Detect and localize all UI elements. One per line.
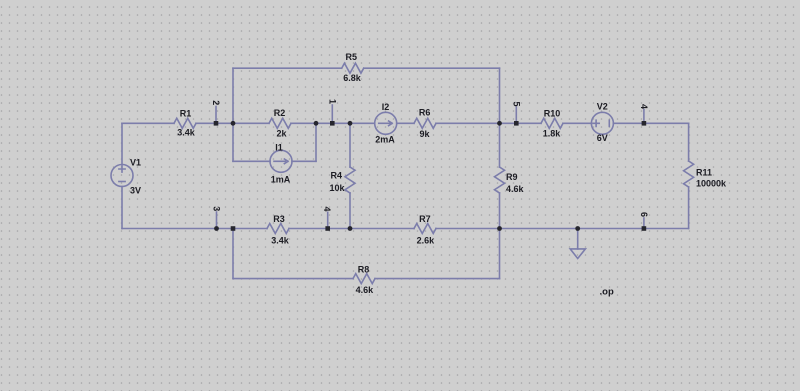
wire: V2 right to top-right corner [613, 122, 688, 124]
resistor R7 [414, 224, 436, 234]
node 4 flag stub [643, 110, 645, 124]
wire: R6 to R10 (through node 5 junction) [436, 122, 541, 124]
svg-text:2mA: 2mA [375, 135, 395, 145]
svg-text:6.8k: 6.8k [343, 73, 362, 83]
wire: R9 top lead [499, 123, 501, 167]
resistor R6 [414, 118, 436, 128]
wire: R10 to V2 left edge [563, 122, 591, 124]
svg-text:10000k: 10000k [696, 179, 727, 189]
svg-text:6V: 6V [597, 133, 608, 143]
wire: R5 right leg [499, 68, 501, 123]
wire: R1 to R2 (through node 2 and junction) [196, 122, 269, 124]
wire: R9 bottom lead [499, 193, 501, 229]
svg-text:.op: .op [600, 286, 614, 297]
svg-text:1: 1 [327, 99, 337, 104]
wire: bottom rail right segment [436, 228, 689, 230]
svg-text:R1: R1 [180, 109, 192, 119]
wire: R5 left leg [232, 68, 234, 123]
svg-text:4.6k: 4.6k [506, 184, 525, 194]
wire: top loop left segment [233, 67, 342, 69]
junction R9 bottom / R8 right [497, 226, 502, 231]
wire: I2 right to R6 [397, 122, 414, 124]
wire: R11 top lead [688, 123, 690, 161]
current source I2 [375, 112, 397, 134]
wire: I1 right branch up [315, 123, 317, 161]
svg-text:3.4k: 3.4k [177, 128, 196, 138]
node 1 marker [330, 121, 335, 126]
junction node 3 on bottom rail [214, 226, 219, 231]
svg-text:1.8k: 1.8k [543, 129, 562, 139]
node 2 flag stub [215, 107, 217, 124]
wire: R3 to R7 [289, 228, 414, 230]
svg-text:R9: R9 [506, 172, 518, 182]
svg-text:R7: R7 [419, 214, 431, 224]
ground [570, 229, 585, 259]
node 4 bottom flag stub [327, 212, 329, 228]
svg-text:R8: R8 [358, 265, 370, 275]
junction at node 2 / R5 left leg [231, 121, 236, 126]
wire: top loop right segment [364, 67, 500, 69]
current source I1 [270, 150, 292, 172]
resistor R3 [267, 224, 289, 234]
svg-text:5: 5 [511, 101, 521, 106]
wire: R8 right horizontal [375, 278, 500, 280]
svg-text:R10: R10 [544, 109, 561, 119]
node 2 marker [214, 121, 219, 126]
wire: I1 left branch down [232, 123, 234, 161]
svg-text:2: 2 [211, 100, 221, 105]
svg-text:6: 6 [639, 212, 649, 217]
junction R8 left branch [231, 226, 236, 231]
resistor R5 [342, 63, 364, 73]
svg-text:2.6k: 2.6k [417, 236, 436, 246]
node 1 flag stub [331, 105, 333, 123]
wire: R2 right to I2 left edge [291, 122, 375, 124]
svg-text:I2: I2 [382, 102, 390, 112]
wire: bottom rail left segment [122, 228, 267, 230]
resistor R9 [495, 167, 505, 193]
svg-text:R6: R6 [419, 107, 431, 117]
wire: V1 bottom lead [121, 187, 123, 229]
svg-text:9k: 9k [419, 129, 430, 139]
svg-text:4.6k: 4.6k [356, 285, 375, 295]
resistor R10 [541, 118, 563, 128]
wire: I1 right horizontal [292, 160, 316, 162]
node 4 marker [642, 121, 647, 126]
junction R4 top at top rail [348, 121, 353, 126]
resistor R4 [345, 167, 355, 193]
wire: V1 top lead up to top rail [121, 123, 123, 164]
svg-text:3V: 3V [130, 186, 141, 196]
svg-text:R5: R5 [346, 52, 358, 62]
svg-text:1mA: 1mA [271, 174, 291, 184]
node 4 bottom marker [325, 226, 330, 231]
resistor R11 [684, 161, 694, 187]
node 6 flag stub [643, 218, 645, 229]
svg-text:I1: I1 [275, 142, 283, 152]
node 5 flag stub [515, 107, 517, 123]
svg-text:2k: 2k [276, 128, 287, 138]
wire: R8 left horizontal [233, 278, 353, 280]
svg-text:4: 4 [639, 104, 649, 109]
wire: R8 right branch up [499, 229, 501, 279]
svg-text:4: 4 [322, 206, 332, 211]
svg-text:R2: R2 [274, 108, 286, 118]
svg-text:R3: R3 [273, 214, 285, 224]
node 5 marker [514, 121, 519, 126]
wire: R11 bottom lead [688, 187, 690, 229]
svg-text:V2: V2 [597, 102, 608, 112]
voltage source V2 [591, 112, 613, 134]
wire: top rail left segment to R1 [122, 122, 174, 124]
resistor R8 [353, 274, 375, 284]
node 3 flag stub [216, 212, 218, 229]
svg-text:3.4k: 3.4k [271, 236, 290, 246]
svg-text:V1: V1 [130, 158, 141, 168]
junction R5 right leg / R9 top [497, 121, 502, 126]
wire: I1 left horizontal [233, 160, 270, 162]
wire: R8 left branch down [232, 229, 234, 279]
wire: R4 top lead [349, 123, 351, 167]
junction I1 right at top rail [314, 121, 319, 126]
junction R4 bottom [348, 226, 353, 231]
resistor R2 [269, 118, 291, 128]
svg-text:10k: 10k [330, 183, 346, 193]
svg-text:R11: R11 [696, 167, 712, 177]
wire: R4 bottom lead [349, 193, 351, 229]
svg-text:3: 3 [212, 206, 222, 211]
voltage source V1 [111, 165, 133, 187]
resistor R1 [174, 118, 196, 128]
junction ground tap [575, 226, 580, 231]
svg-text:R4: R4 [331, 171, 343, 181]
node 6 marker [642, 226, 647, 231]
